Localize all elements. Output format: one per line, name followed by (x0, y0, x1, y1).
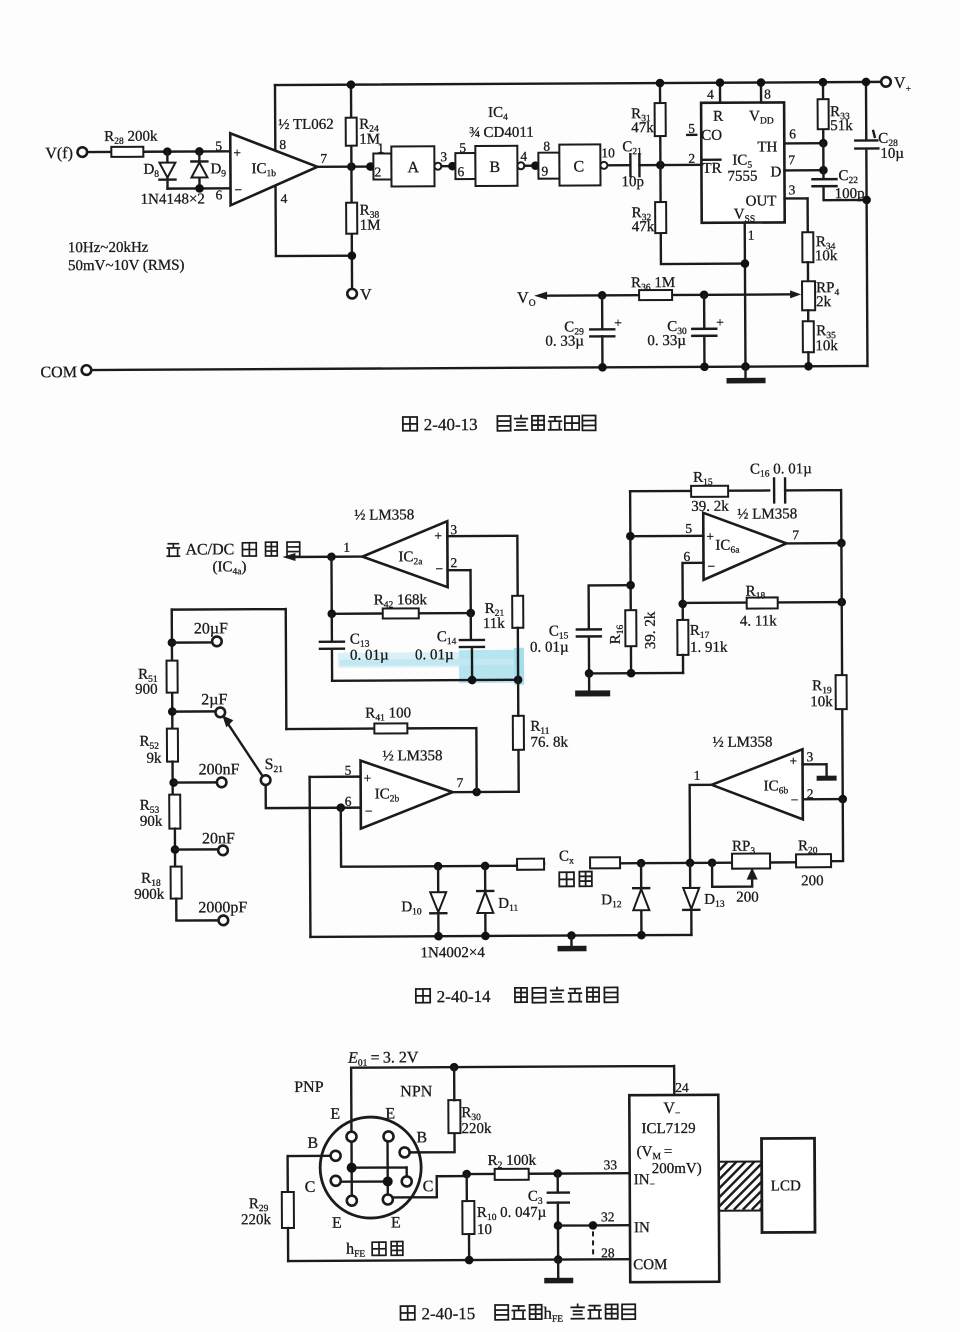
diode D8 (159, 152, 175, 189)
terminal 20uF (168, 638, 177, 647)
svg-text:C: C (573, 158, 584, 175)
svg-text:2: 2 (374, 165, 381, 180)
svg-text:2k: 2k (816, 294, 832, 310)
svg-text:200mV): 200mV) (652, 1161, 702, 1177)
svg-text:TR: TR (702, 161, 721, 177)
diode D13 (683, 863, 699, 935)
svg-text:LCD: LCD (771, 1178, 801, 1194)
svg-text:6: 6 (789, 126, 796, 141)
svg-text:39. 2k: 39. 2k (643, 611, 659, 649)
socket pin C npn (402, 1176, 412, 1186)
wire S21 node down to Cx row (341, 807, 517, 867)
ground (588, 673, 590, 690)
svg-text:1: 1 (748, 228, 755, 243)
switch S21 (261, 775, 271, 785)
svg-text:AC/DC: AC/DC (185, 541, 234, 558)
wire R2 row (467, 1172, 630, 1175)
resistor R17 (677, 620, 688, 655)
resistor R31 (659, 83, 662, 165)
svg-text:¾ CD4011: ¾ CD4011 (469, 125, 534, 141)
resistor R18 feedback row (683, 601, 842, 604)
svg-text:4: 4 (707, 87, 714, 102)
op-amp IC6a (703, 512, 786, 579)
socket pin E bottom right (383, 1194, 393, 1204)
resistor R34 (802, 232, 813, 262)
caption figure 2-40-13 (403, 414, 596, 434)
svg-text:−: − (707, 559, 715, 574)
diode D9 (191, 151, 207, 188)
left range chain top wire (172, 609, 287, 730)
capacitor C13 (320, 614, 344, 681)
svg-text:39. 2k: 39. 2k (691, 499, 729, 515)
potentiometer RP4 (802, 281, 815, 310)
svg-text:0. 01µ: 0. 01µ (530, 640, 569, 656)
wire OUT pin3 (785, 198, 808, 232)
svg-text:D: D (770, 164, 781, 180)
svg-text:½ LM358: ½ LM358 (712, 734, 772, 750)
svg-text:90k: 90k (140, 814, 163, 830)
svg-text:2-40-13: 2-40-13 (424, 415, 478, 434)
svg-text:7555: 7555 (727, 169, 757, 185)
COM rail (82, 365, 92, 375)
svg-text:0. 33µ: 0. 33µ (647, 333, 686, 349)
resistor R20 (796, 854, 831, 867)
svg-text:2µF: 2µF (201, 691, 227, 708)
svg-text:7: 7 (320, 151, 327, 166)
svg-text:R42 168k: R42 168k (374, 592, 428, 610)
resistor R30 (448, 1100, 460, 1133)
IC5 7555 timer (701, 102, 785, 222)
socket pin E bottom left (347, 1196, 357, 1206)
svg-text:1. 91k: 1. 91k (690, 640, 728, 656)
svg-text:1: 1 (694, 768, 701, 783)
svg-text:28: 28 (601, 1245, 615, 1260)
bottom rail IC6a (589, 672, 683, 675)
ground (557, 1260, 559, 1278)
gate B (455, 153, 475, 179)
svg-text:IN: IN (634, 1220, 650, 1236)
svg-text:R41 100: R41 100 (365, 705, 411, 723)
svg-text:3: 3 (806, 749, 813, 764)
svg-text:B: B (489, 159, 500, 176)
svg-text:6: 6 (457, 164, 464, 179)
op-amp IC6b (711, 749, 802, 819)
label to AC/DC (166, 544, 180, 557)
svg-text:(IC4a): (IC4a) (212, 559, 246, 577)
resistor R33 (822, 82, 825, 143)
wire IC6a output (786, 542, 841, 545)
resistor R11 (517, 750, 520, 792)
svg-text:1: 1 (377, 140, 384, 155)
resistor R42 (331, 556, 470, 614)
watermark band (338, 652, 524, 668)
svg-text:2: 2 (688, 151, 695, 166)
svg-text:4. 11k: 4. 11k (740, 613, 778, 629)
wire pin5 ground vertical (308, 777, 311, 937)
svg-text:2: 2 (450, 555, 457, 570)
diode D10 (430, 866, 446, 936)
svg-text:B: B (416, 1129, 427, 1146)
svg-text:10µ: 10µ (880, 146, 904, 162)
op-amp IC1b (230, 133, 317, 205)
capacitor C30 (692, 295, 716, 367)
resistor R32 (660, 165, 745, 264)
resistor R52 (167, 729, 178, 762)
svg-text:20nF: 20nF (202, 830, 235, 847)
svg-text:−: − (435, 561, 443, 576)
svg-text:200: 200 (801, 873, 824, 889)
svg-text:V: V (360, 287, 372, 304)
svg-text:E: E (385, 1105, 395, 1122)
svg-text:1N4002×4: 1N4002×4 (420, 945, 485, 961)
svg-text:C16 0. 01µ: C16 0. 01µ (750, 461, 812, 479)
op-amp IC2b (310, 775, 361, 778)
wire pin2 of IC2a (448, 570, 471, 613)
svg-text:200nF: 200nF (199, 761, 240, 778)
resistor R10 (467, 1174, 469, 1259)
socket pin E npn (383, 1131, 393, 1141)
svg-text:0. 01µ: 0. 01µ (350, 647, 389, 663)
svg-text:6: 6 (216, 187, 223, 202)
svg-text:+: + (789, 753, 797, 768)
svg-text:7: 7 (788, 152, 795, 167)
svg-text:R: R (713, 109, 723, 125)
svg-text:½ TL062: ½ TL062 (278, 117, 334, 133)
svg-text:+: + (614, 315, 622, 330)
capacitor C15 (577, 585, 631, 673)
resistor R21 (512, 596, 523, 628)
svg-text:5: 5 (459, 140, 466, 155)
wire pin3 of IC2a (447, 536, 517, 596)
svg-text:5: 5 (685, 521, 692, 536)
svg-text:1: 1 (343, 540, 350, 555)
diode D11 (477, 866, 493, 936)
IC ICL7129 (629, 1095, 719, 1282)
svg-text:50mV~10V (RMS): 50mV~10V (RMS) (68, 258, 185, 275)
svg-text:5: 5 (215, 138, 222, 153)
bottom rail diodes (310, 935, 691, 937)
svg-text:9: 9 (541, 164, 548, 179)
wire IC2b output (453, 791, 519, 794)
LCD box (762, 1138, 815, 1232)
Cx socket row (517, 863, 712, 864)
svg-text:32: 32 (601, 1209, 615, 1224)
svg-text:½ LM358: ½ LM358 (737, 506, 797, 522)
svg-text:900: 900 (135, 682, 158, 698)
capacitor C21 (608, 164, 701, 167)
node input dots (163, 147, 172, 156)
terminal V (347, 289, 357, 299)
svg-text:TH: TH (757, 139, 777, 155)
svg-text:24: 24 (675, 1080, 689, 1095)
svg-text:E: E (391, 1214, 401, 1231)
wire IC6b output pin1 (690, 785, 712, 863)
svg-text:10p: 10p (621, 174, 644, 190)
svg-text:0. 01µ: 0. 01µ (415, 647, 454, 663)
svg-text:OUT: OUT (746, 193, 777, 209)
resistor R2 (495, 1169, 529, 1180)
wire diode bottom (168, 187, 231, 190)
resistor R19 (841, 543, 842, 799)
caption figure 2-40-14 (416, 986, 618, 1006)
capacitor C22 (812, 143, 866, 200)
internal socket wiring (342, 1141, 407, 1194)
svg-text:A: A (407, 159, 419, 176)
wire pin8 vertical (274, 85, 277, 151)
op-amp IC2a (362, 521, 447, 587)
svg-text:10k: 10k (810, 694, 833, 710)
svg-text:900k: 900k (134, 887, 165, 903)
svg-text:−: − (365, 804, 373, 819)
svg-text:6: 6 (683, 549, 690, 564)
svg-text:76. 8k: 76. 8k (530, 735, 568, 751)
svg-text:½ LM358: ½ LM358 (354, 507, 414, 523)
wire input (87, 150, 230, 153)
svg-text:E01 = 3. 2V: E01 = 3. 2V (347, 1049, 419, 1068)
wire to AC/DC converter with arrow (291, 555, 362, 558)
resistor R35 (803, 321, 814, 352)
svg-text:R36 1M: R36 1M (631, 275, 675, 293)
svg-text:NPN: NPN (400, 1083, 433, 1100)
svg-text:0. 33µ: 0. 33µ (545, 333, 584, 349)
svg-text:47k: 47k (631, 120, 654, 136)
socket pin C pnp (331, 1176, 341, 1186)
svg-text:7: 7 (457, 775, 464, 790)
terminal 2000pF (219, 916, 229, 926)
svg-text:8: 8 (764, 86, 771, 101)
capacitor C28 (855, 82, 879, 366)
svg-text:C: C (305, 1179, 316, 1196)
svg-text:10Hz~20kHz: 10Hz~20kHz (68, 240, 149, 256)
svg-text:C: C (423, 1178, 434, 1195)
svg-text:V(f): V(f) (45, 145, 73, 162)
resistor R41 feedback (286, 728, 476, 793)
ground (570, 936, 572, 947)
svg-text:47k: 47k (632, 219, 655, 235)
wire pin32 row (558, 1224, 630, 1227)
wire VSS pin1 (744, 223, 747, 367)
svg-text:+: + (233, 145, 241, 160)
wire top rail (275, 82, 881, 85)
svg-text:2000pF: 2000pF (198, 899, 247, 916)
hatched connector to LCD (719, 1162, 765, 1210)
potentiometer RP3 (712, 799, 843, 863)
svg-text:B: B (307, 1135, 318, 1152)
svg-text:+: + (434, 528, 442, 543)
svg-text:3: 3 (440, 149, 447, 164)
wire B pnp to R29 (288, 1156, 331, 1192)
top rail (351, 1066, 674, 1132)
svg-text:R28 200k: R28 200k (104, 129, 158, 147)
svg-text:2-40-15: 2-40-15 (421, 1304, 475, 1323)
svg-text:1N4148×2: 1N4148×2 (141, 191, 205, 207)
svg-text:7: 7 (792, 527, 799, 542)
svg-text:3: 3 (789, 182, 796, 197)
svg-text:51k: 51k (830, 118, 853, 134)
svg-text:10: 10 (601, 145, 615, 160)
wire pin2 (803, 798, 843, 801)
socket pin E pnp (346, 1132, 356, 1142)
diode D12 (633, 863, 649, 935)
wire B npn to R30 (410, 1133, 454, 1152)
capacitor C29 (590, 295, 614, 367)
resistor R28 (111, 147, 143, 157)
svg-text:5: 5 (688, 121, 695, 136)
svg-text:3: 3 (450, 522, 457, 537)
wire TH pin6 (784, 142, 823, 145)
socket pin B pnp (331, 1151, 341, 1161)
resistor R38 (350, 167, 353, 289)
svg-text:220k: 220k (241, 1212, 272, 1228)
svg-text:E: E (330, 1106, 340, 1123)
wire pin5 row (630, 491, 704, 673)
svg-text:10k: 10k (815, 338, 838, 354)
resistor R15 (691, 486, 728, 497)
svg-text:−: − (791, 792, 799, 807)
svg-text:½ LM358: ½ LM358 (382, 748, 442, 764)
resistor R36 (639, 290, 672, 300)
ground (744, 367, 746, 379)
wire C13 C14 bottom rail (332, 679, 518, 682)
capacitor C16 (774, 478, 785, 502)
svg-text:−: − (234, 182, 242, 197)
svg-text:200: 200 (736, 890, 759, 906)
svg-text:CO: CO (701, 128, 722, 144)
svg-text:COM: COM (633, 1257, 667, 1273)
svg-text:4: 4 (281, 191, 288, 206)
capacitor C14 (460, 613, 484, 680)
svg-text:1M: 1M (360, 218, 381, 234)
resistor R51 (171, 610, 174, 729)
caption figure 2-40-15 (400, 1303, 635, 1325)
svg-text:COM: COM (40, 364, 77, 381)
svg-text:R2 100k: R2 100k (488, 1153, 537, 1171)
wire pin4 to V node (276, 187, 352, 256)
resistor R18 (171, 867, 182, 899)
resistor R53 (169, 795, 180, 829)
wire pin3 to ground (803, 764, 827, 776)
svg-text:E: E (332, 1215, 342, 1232)
resistor R24 (350, 85, 353, 167)
svg-text:10k: 10k (815, 248, 838, 264)
wire D pin7 (784, 169, 823, 172)
svg-text:33: 33 (604, 1157, 618, 1172)
gate A (373, 153, 391, 179)
terminal V(f) (78, 147, 88, 157)
svg-text:+: + (716, 315, 724, 330)
svg-text:220k: 220k (461, 1121, 492, 1137)
svg-text:11k: 11k (483, 616, 506, 632)
wire pin6 (682, 563, 703, 620)
wire output row to gates (317, 165, 373, 168)
svg-text:2-40-14: 2-40-14 (437, 987, 491, 1006)
svg-text:+: + (706, 529, 714, 544)
svg-text:20µF: 20µF (194, 620, 228, 637)
svg-text:+: + (364, 771, 372, 786)
svg-text:8: 8 (543, 139, 550, 154)
terminal V+ (881, 77, 891, 87)
svg-text:PNP: PNP (294, 1079, 324, 1096)
resistor R16 (rotated labels) (625, 610, 636, 646)
svg-text:100p: 100p (835, 186, 865, 202)
wire E npn node to R10 R2 (393, 1176, 467, 1197)
terminal 2uF (168, 707, 177, 716)
svg-text:8: 8 (279, 137, 286, 152)
svg-text:5: 5 (345, 763, 352, 778)
socket pin B npn (400, 1147, 410, 1157)
terminal 20nF (171, 845, 180, 854)
resistor R29 (282, 1192, 294, 1228)
svg-text:4: 4 (520, 149, 527, 164)
terminal 200nF (169, 778, 178, 787)
transistor socket circle (320, 1117, 422, 1219)
wire R15 C16 feedback row (630, 490, 841, 544)
bottom rail (288, 1259, 630, 1261)
capacitor C3 (548, 1174, 569, 1260)
gate C (538, 153, 559, 179)
dashed link pin32 to pin28 (592, 1231, 594, 1257)
svg-text:6: 6 (345, 794, 352, 809)
svg-text:10: 10 (477, 1222, 492, 1238)
svg-text:ICL7129: ICL7129 (641, 1121, 695, 1137)
svg-text:9k: 9k (146, 751, 162, 767)
